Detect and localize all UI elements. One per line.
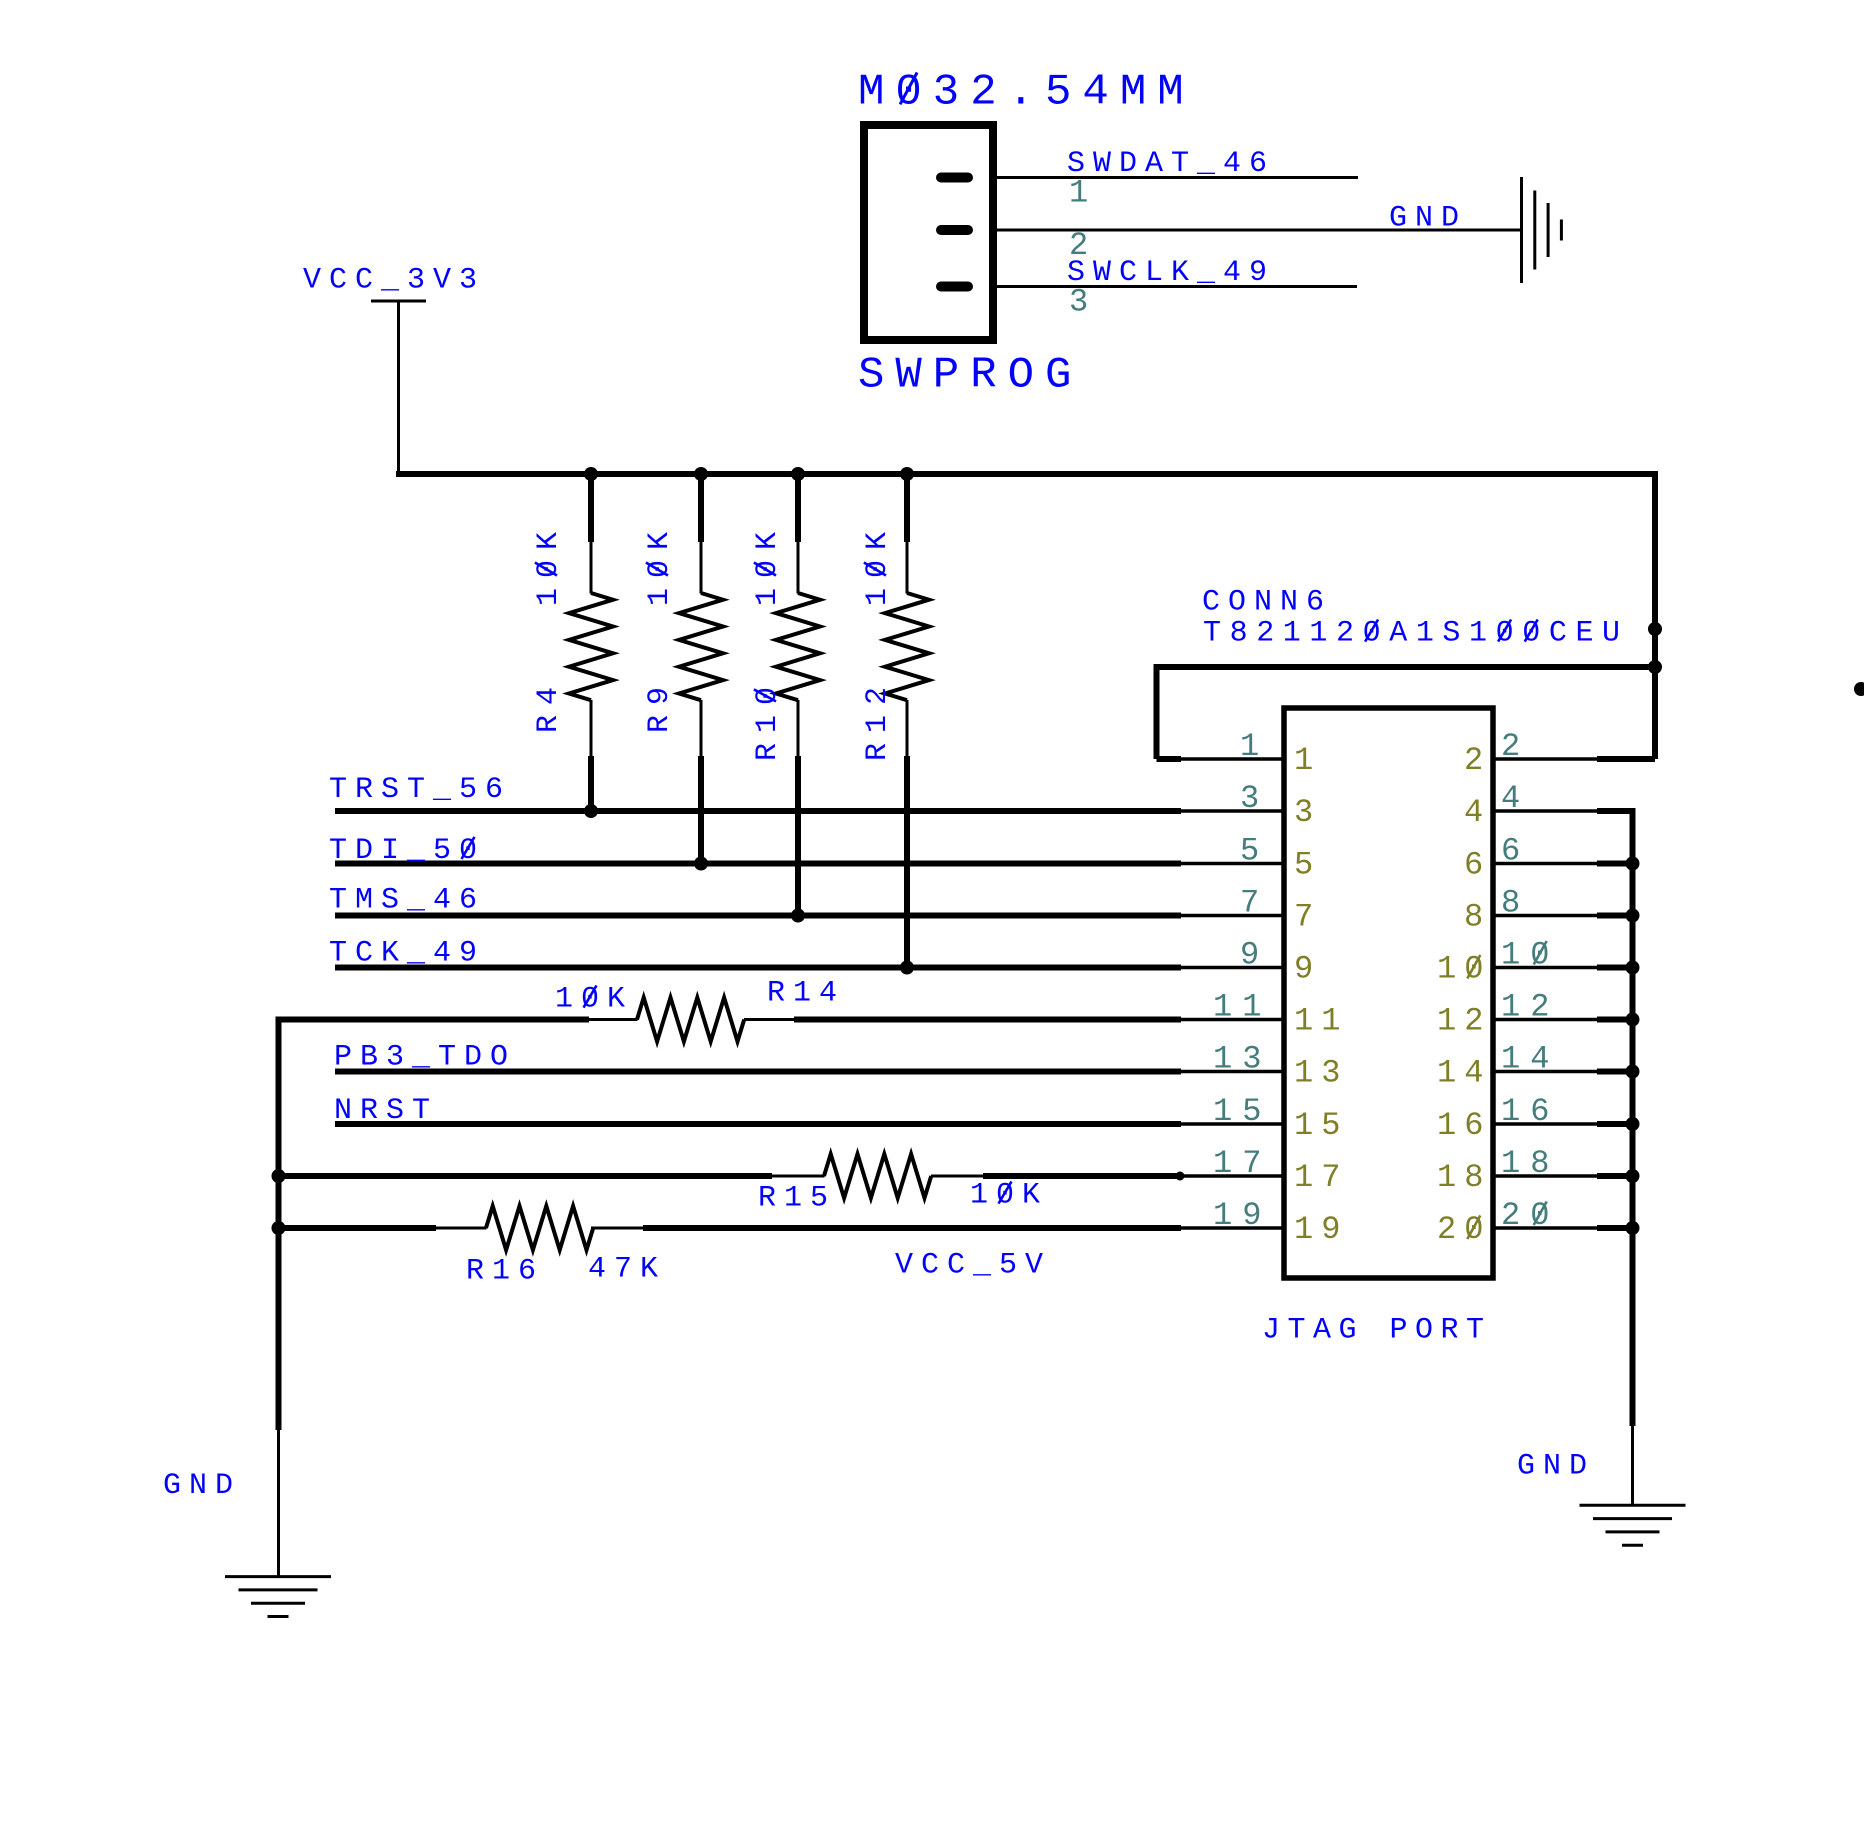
svg-text:PB3_TDO: PB3_TDO [334,1041,516,1075]
svg-text:10: 10 [1437,951,1491,988]
junction dots on right bus (pins 6-20) [1626,857,1640,871]
svg-text:20: 20 [1437,1211,1491,1248]
ground symbol (bottom left) [225,1575,331,1578]
wires pin6-pin20 rows to right bus [1597,861,1633,867]
svg-text:SWDAT_46: SWDAT_46 [1067,147,1275,181]
svg-text:1: 1 [1294,742,1321,779]
resistor R14 left thin lead [589,1018,638,1021]
junction dot R9/TDI_50 [694,857,708,871]
CONN6 right pin stubs (pins 2-20) [1491,757,1599,761]
junction dot VCC vertical / CONN6 frame [1648,660,1662,674]
wire pin1 row to stub [1157,756,1182,762]
slash of zero in TDI_50 [462,837,475,859]
svg-text:4: 4 [1464,794,1491,831]
svg-text:18: 18 [1501,1145,1559,1182]
svg-text:14: 14 [1437,1055,1491,1092]
wire pin17 row right segment [983,1173,1181,1179]
svg-text:14: 14 [1501,1041,1559,1078]
wire CONN6 frame left vertical [1154,664,1160,759]
reference label R10 (vertical) [751,677,785,761]
resistor R16 left thin lead [436,1227,487,1230]
svg-text:3: 3 [1294,794,1321,831]
svg-text:2: 2 [1501,728,1530,765]
svg-text:17: 17 [1213,1145,1271,1182]
wire TCK_49 (pin9 row) [335,965,1181,971]
wire left GND thin lead [277,1430,280,1577]
value label 10K of R4 (vertical) [532,522,566,606]
svg-text:GND: GND [163,1469,241,1503]
svg-text:R4: R4 [532,677,566,733]
connector SWPROG body (M03 2.54MM 3-pin header) [864,125,993,340]
wire left vertical bus (pin11 corner down) [276,1017,282,1431]
slash of zero in R14 10K [584,986,597,1008]
junction dot R10/TMS_46 [791,909,805,923]
svg-text:20: 20 [1501,1197,1559,1234]
wire right vertical bus [1630,808,1636,1426]
SWPROG pin 1 stub [941,173,968,183]
wire VCC bus horizontal [396,471,1655,477]
svg-text:R15: R15 [758,1182,836,1216]
junction dot R12 top on VCC bus [900,467,914,481]
svg-text:15: 15 [1294,1107,1348,1144]
svg-text:GND: GND [1389,202,1467,236]
resistor R14 10K (horizontal) [637,998,744,1042]
resistor R14 right thin lead [744,1018,794,1021]
ground symbol (bottom right) [1580,1504,1686,1507]
wire NRST (pin15 row) [335,1121,1181,1127]
svg-text:VCC_5V: VCC_5V [895,1249,1051,1283]
ground symbol (top right, rotated) [1520,177,1523,283]
svg-text:NRST: NRST [334,1094,438,1128]
junction dot on VCC vertical (upper) [1648,622,1662,636]
value label 10K of R12 (vertical) [861,522,895,606]
svg-text:13: 13 [1213,1041,1271,1078]
wire TDI_50 (pin5 row) [335,861,1181,867]
reference label R12 (vertical) [861,677,895,761]
junction dot R9 top on VCC bus [694,467,708,481]
wire pin11 row right segment [794,1017,1181,1023]
slash of zero in R15 10K [999,1182,1012,1204]
svg-text:JTAG PORT: JTAG PORT [1262,1314,1492,1348]
wire SWPROG pin3 SWCLK_49 [997,285,1357,288]
svg-text:11: 11 [1213,989,1271,1026]
resistor R16 47K (horizontal) [486,1206,593,1250]
wire VCC_3V3 lead down [397,301,400,474]
junction dot R10 top on VCC bus [791,467,805,481]
connector CONN6 body (JTAG PORT) [1284,708,1493,1278]
value label 10K of R9 (vertical) [643,522,677,606]
wire VCC bus corner down to pin2 row [1652,471,1658,759]
svg-text:9: 9 [1240,937,1269,974]
svg-text:15: 15 [1213,1093,1271,1130]
svg-text:3: 3 [1240,780,1269,817]
svg-text:16: 16 [1501,1093,1559,1130]
wire pin11 row left segment [279,1017,590,1023]
wire SWPROG pin2 to GND [997,229,1521,232]
svg-text:TRST_56: TRST_56 [329,773,511,807]
SWPROG pin 2 stub [941,225,968,235]
resistor R16 right thin lead [591,1227,643,1230]
svg-text:6: 6 [1464,847,1491,884]
wire pin4 row to right bus corner [1597,808,1633,814]
svg-text:CONN6: CONN6 [1202,586,1332,620]
resistor R10 10K (vertical pull-up) [795,474,801,542]
junction dot left bus / pin19 wire [272,1221,286,1235]
svg-text:4: 4 [1501,780,1530,817]
svg-text:VCC_3V3: VCC_3V3 [303,264,485,298]
svg-text:8: 8 [1464,899,1491,936]
slashes of zeros in part number [1365,620,1378,642]
resistor R9 10K (vertical pull-up) [698,474,704,542]
svg-text:7: 7 [1240,885,1269,922]
svg-text:17: 17 [1294,1159,1348,1196]
svg-text:R12: R12 [861,677,895,761]
resistor R4 10K (vertical pull-up) [588,474,594,542]
svg-text:9: 9 [1294,951,1321,988]
wire right GND thin lead [1631,1426,1634,1506]
resistor R12 10K (vertical pull-up) [904,474,910,542]
svg-text:GND: GND [1517,1450,1595,1484]
wire TMS_46 (pin7 row) [335,913,1181,919]
wire pin19 row left segment [279,1225,437,1231]
svg-text:TCK_49: TCK_49 [329,937,485,971]
wire end dot at pin17 stub joint [1176,1172,1185,1181]
wire SWPROG pin1 SWDAT_46 [997,176,1358,179]
slash of zero in M032.54MM [900,73,917,105]
resistor R15 right thin lead [931,1175,983,1178]
svg-text:5: 5 [1294,847,1321,884]
svg-text:5: 5 [1240,833,1269,870]
svg-text:19: 19 [1294,1211,1348,1248]
svg-text:T821120A1S100CEU: T821120A1S100CEU [1203,617,1629,651]
wire CONN6 frame top horizontal [1157,664,1656,670]
reference label R9 (vertical) [643,677,677,733]
svg-text:19: 19 [1213,1197,1271,1234]
wire TRST_56 (pin3 row) [335,808,1181,814]
wire pin17 row left segment [279,1173,773,1179]
svg-text:8: 8 [1501,885,1530,922]
SWPROG pin 3 stub [941,282,968,292]
resistor R15 10K (horizontal) [824,1154,931,1198]
svg-text:16: 16 [1437,1107,1491,1144]
resistor R15 left thin lead [772,1175,825,1178]
svg-text:12: 12 [1501,989,1559,1026]
svg-text:R16: R16 [466,1255,544,1289]
junction dot left bus / pin17 wire [272,1169,286,1183]
svg-text:11: 11 [1294,1003,1348,1040]
svg-text:47K: 47K [588,1253,666,1287]
svg-text:R9: R9 [643,677,677,733]
junction dot (right edge) [1854,682,1864,696]
svg-text:TMS_46: TMS_46 [329,884,485,918]
wire pin19 row right segment (VCC_5V) [643,1225,1181,1231]
svg-text:18: 18 [1437,1159,1491,1196]
CONN6 left pin stubs (pins 1-19) [1179,757,1286,761]
svg-text:12: 12 [1437,1003,1491,1040]
junction dot R4/TRST_56 [584,804,598,818]
svg-text:7: 7 [1294,899,1321,936]
junction dot R12/TCK_49 [900,961,914,975]
svg-text:SWPROG: SWPROG [858,350,1082,400]
reference label R4 (vertical) [532,677,566,733]
svg-text:2: 2 [1464,742,1491,779]
svg-text:13: 13 [1294,1055,1348,1092]
svg-text:SWCLK_49: SWCLK_49 [1067,256,1275,290]
svg-text:R14: R14 [767,977,845,1011]
value label 10K of R10 (vertical) [751,522,785,606]
svg-text:M032.54MM: M032.54MM [858,67,1195,117]
wire PB3_TDO (pin13 row) [335,1069,1181,1075]
svg-text:1: 1 [1240,728,1269,765]
svg-text:TDI_50: TDI_50 [329,834,485,868]
svg-text:6: 6 [1501,833,1530,870]
svg-text:10: 10 [1501,937,1559,974]
VCC_3V3 power symbol bar [371,300,426,303]
wire pin2 row to VCC vertical [1597,756,1655,762]
junction dot R4 top on VCC bus [584,467,598,481]
